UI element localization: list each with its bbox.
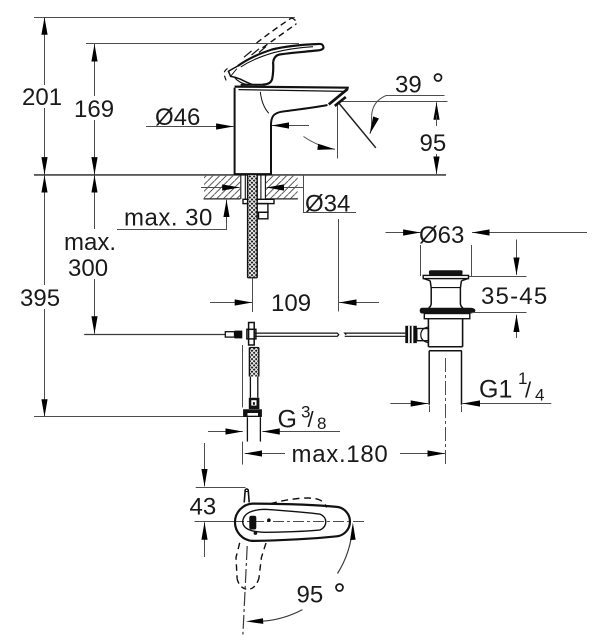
- cross fitting vertical pin: [249, 323, 255, 346]
- drain tailpipe walls: [428, 351, 430, 405]
- wire O46 leader arrow right: [146, 126, 234, 128]
- wire 169 reference line: [86, 43, 299, 45]
- faucet cap inner line: [239, 90, 346, 92]
- drain ball joint arc: [421, 327, 429, 343]
- node countertop bottom left: [204, 198, 241, 200]
- svg-text:8: 8: [317, 414, 326, 433]
- svg-text:G: G: [278, 406, 297, 434]
- svg-text:Ø34: Ø34: [305, 191, 350, 218]
- handle inner top line: [241, 47, 313, 67]
- node countertop hatch right: [266, 176, 298, 199]
- 95deg arc: [338, 527, 353, 574]
- svg-text:43: 43: [190, 494, 217, 521]
- drain plug disc: [423, 275, 468, 278]
- handle lever top edge: [238, 44, 324, 66]
- 95deg arc arrow left: [246, 618, 263, 624]
- threaded shank hatched rod: [248, 175, 257, 278]
- svg-text:95: 95: [297, 582, 324, 609]
- wire 39 underline: [387, 95, 445, 97]
- dashed spout hidden left edge: [236, 543, 240, 579]
- svg-text:4: 4: [535, 386, 544, 405]
- wire 201 top reference line: [34, 17, 295, 19]
- wire 35-45 bottom ref line: [472, 312, 527, 314]
- drain knob connector box: [417, 329, 429, 341]
- pop-up rod horizontal to drain: [255, 333, 339, 336]
- drain neck walls: [429, 281, 432, 308]
- handle nose inner line: [231, 69, 237, 77]
- svg-text:max. 30: max. 30: [124, 205, 213, 232]
- drain plug cap dark: [429, 270, 463, 275]
- top view horizontal centerline: [233, 521, 366, 523]
- handle dome arc: [235, 78, 247, 85]
- drain collar lines: [428, 346, 462, 348]
- svg-text:max.180: max.180: [292, 441, 389, 468]
- svg-text:35-45: 35-45: [481, 283, 548, 310]
- drain centerline: [445, 358, 447, 467]
- pop-up rod pin top view: [244, 489, 249, 503]
- wire O63 extension right: [471, 245, 473, 276]
- wire 35-45 arrow down: [516, 240, 518, 275]
- svg-text:max.: max.: [64, 229, 116, 256]
- shank outer tube walls in hole: [240, 175, 242, 199]
- vertical hose hatched below cross: [250, 348, 258, 377]
- mounting nut step: [259, 212, 268, 219]
- wire 39 leader arc: [370, 95, 387, 133]
- svg-text:395: 395: [20, 285, 60, 312]
- svg-text:G1: G1: [479, 376, 512, 404]
- pull rod clamp block: [235, 331, 243, 339]
- wire dim43 vertical line: [204, 443, 206, 470]
- mounting washer: [243, 199, 274, 203]
- svg-text:169: 169: [74, 96, 114, 123]
- wire 43 bottom ref line: [195, 521, 234, 523]
- svg-text:109: 109: [271, 290, 311, 317]
- dashed rotated lever top view: [270, 498, 327, 508]
- faucet body left wall: [234, 88, 236, 175]
- svg-text:Ø63: Ø63: [419, 222, 464, 249]
- drain knob ribbed: [405, 326, 417, 343]
- dashed raised lever tip arc: [291, 18, 296, 24]
- wire max30 leader: [117, 212, 227, 230]
- node countertop bottom right: [266, 198, 298, 200]
- G38 connector nut: [249, 398, 260, 409]
- wire dim 109 arrows: [210, 302, 252, 304]
- faucet base line: [234, 173, 272, 175]
- dashed raised lever edge 1: [257, 18, 292, 43]
- pull rod horizontal left thin: [84, 334, 225, 336]
- drain flange dark ring: [420, 308, 476, 314]
- node countertop top line: [34, 174, 446, 176]
- faucet cap top line: [235, 87, 349, 88]
- wire 43 top ref line: [196, 487, 246, 489]
- hose plain tube: [249, 377, 251, 398]
- pull rod hole dark: [249, 516, 256, 530]
- handle nose polygon: [228, 66, 252, 85]
- drain neck joint line: [431, 287, 461, 289]
- svg-text:/: /: [308, 407, 315, 432]
- G38 connector flange: [243, 409, 262, 417]
- wire max180 left tick: [242, 345, 244, 408]
- wire spout tip vertical extension lower: [338, 219, 340, 312]
- drain plug chamfer right: [461, 279, 468, 281]
- screw dot 2: [254, 531, 258, 535]
- node countertop hatch left: [204, 176, 240, 199]
- wire tailpipe wall ticks: [429, 406, 431, 413]
- pull rod left end cap: [225, 332, 234, 337]
- svg-text:300: 300: [68, 255, 108, 282]
- spout inner waterway curve: [260, 92, 269, 114]
- dashed spout hidden right edge: [259, 543, 266, 578]
- handle dome base line: [241, 84, 266, 86]
- dashed spout bottom arc: [237, 578, 259, 589]
- wire 35-45 arrow up: [516, 315, 518, 338]
- wire O63 arrow left: [386, 232, 421, 234]
- wire O34 arrow right: [267, 187, 304, 189]
- svg-text:/: /: [525, 378, 532, 403]
- wire O63 arrow right: [472, 232, 587, 234]
- wire faucet center extension: [252, 278, 254, 312]
- drain flange lower band: [424, 314, 470, 319]
- top view inner contour: [243, 509, 326, 532]
- faucet body right wall with neck curve: [271, 105, 328, 175]
- wire max180 left arrow: [245, 453, 285, 455]
- 95deg arc arrow up: [350, 523, 356, 540]
- screw dot 1: [267, 518, 271, 522]
- wire dim 201 vertical: [44, 19, 46, 85]
- wire G38 arrows: [208, 431, 243, 433]
- wire spout tip horizontal ref: [341, 101, 448, 103]
- dashed raised lever edge 2: [263, 24, 297, 48]
- wire dim 395 vertical: [44, 177, 46, 285]
- handle neck right edge: [263, 62, 274, 85]
- G38 pipe: [246, 417, 248, 441]
- wire O46 arrow from right: [272, 125, 309, 127]
- wire dim 169 vertical: [94, 46, 96, 96]
- wire dim max300 vertical: [94, 177, 96, 229]
- wire stream line: [339, 103, 376, 148]
- wire G114 arrow right with underline: [463, 403, 552, 405]
- svg-text:201: 201: [22, 84, 62, 111]
- svg-text:95: 95: [420, 130, 447, 157]
- wire 35-45 top ref line: [469, 276, 527, 278]
- wire G114 arrow left: [390, 403, 428, 405]
- mounting nut: [254, 204, 268, 213]
- top view outer body outline: [235, 504, 350, 541]
- drain body walls: [427, 319, 429, 347]
- spout aerator end face: [329, 89, 348, 105]
- dashed raised lever inner dashes: [244, 51, 252, 57]
- drain plug chamfer left: [424, 279, 430, 281]
- dashed hidden dome left: [224, 69, 227, 82]
- spout centerline: [243, 546, 247, 635]
- wire dim 95 vertical: [436, 102, 438, 115]
- wire stream angle arc: [304, 137, 336, 150]
- wire spout tip vertical extension upper: [337, 102, 339, 159]
- svg-text:39: 39: [395, 72, 422, 99]
- wire O34 arrow left: [201, 187, 240, 189]
- wire 395 bottom reference line: [34, 416, 249, 418]
- wire max180 right arrow: [400, 453, 445, 455]
- label O34 with box: [304, 175, 357, 213]
- wire O63 extension left: [420, 245, 422, 276]
